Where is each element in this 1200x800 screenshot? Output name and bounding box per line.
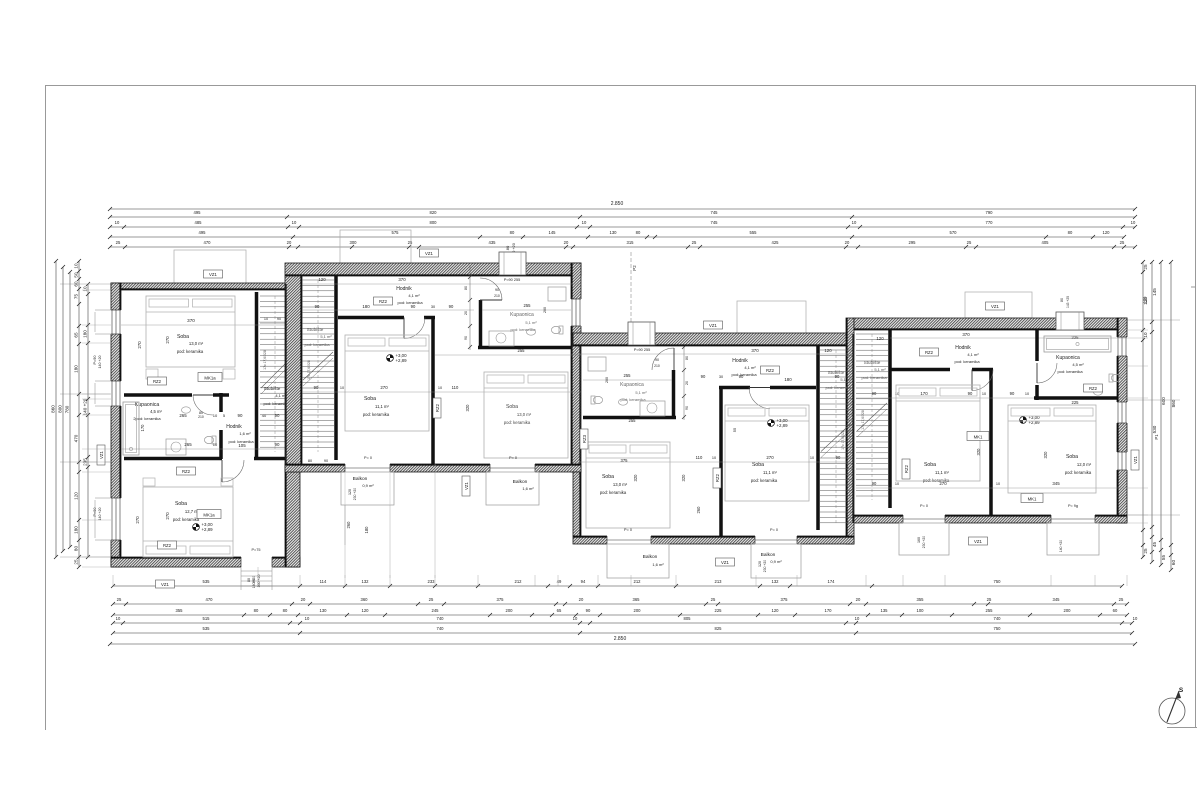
svg-text:90: 90 [872, 391, 877, 396]
label VZ1 building 4 roof [986, 302, 1005, 310]
label RZ2 rotated building 3 [713, 468, 721, 488]
building 4 right wall [1117, 318, 1127, 523]
svg-text:120: 120 [1143, 296, 1148, 304]
svg-text:114: 114 [320, 579, 327, 584]
building 3 Kupaonica walls [672, 370, 676, 419]
building 1 bottom wall entrance gap [241, 557, 272, 568]
bed building 1 Soba 12.7 [143, 487, 233, 557]
svg-text:60: 60 [1171, 560, 1176, 566]
building 2 Kupaonica walls [479, 300, 483, 349]
label MK1 building 4 b [1021, 494, 1043, 503]
svg-text:90: 90 [685, 406, 689, 410]
svg-text:pod: keramika: pod: keramika [1057, 369, 1083, 374]
building 3 hodnik door arc [749, 388, 770, 409]
svg-text:212: 212 [515, 579, 523, 584]
building 3 Soba 11.1 top wall [719, 386, 750, 390]
svg-text:Kupaonica: Kupaonica [510, 312, 534, 318]
building 3 balcony door left gap [607, 536, 651, 546]
svg-text:Kupaonica: Kupaonica [135, 402, 160, 408]
svg-text:P= 0: P= 0 [624, 528, 632, 532]
svg-text:Kupaonica: Kupaonica [1056, 355, 1080, 361]
building 2 right wall window [571, 299, 582, 326]
svg-text:RZ2: RZ2 [904, 464, 909, 473]
svg-text:120: 120 [348, 489, 352, 495]
svg-text:Soba: Soba [602, 474, 614, 480]
svg-text:10: 10 [116, 616, 121, 621]
bed building 4 soba 11.1 [896, 385, 980, 481]
building 3 stairs [820, 349, 852, 351]
top dimension chain row 25/470/20/300/25/435/20/315/25/425/20/295/25/405/25 [110, 246, 1135, 248]
svg-text:+2,89: +2,89 [776, 423, 788, 428]
svg-text:270: 270 [766, 455, 774, 460]
top dimension chain total 2.850 [110, 208, 1135, 210]
svg-text:740: 740 [994, 616, 1002, 621]
svg-text:143 +20: 143 +20 [1066, 296, 1070, 308]
svg-text:90: 90 [275, 413, 280, 418]
svg-text:132: 132 [772, 579, 780, 584]
svg-text:10: 10 [582, 220, 587, 225]
svg-text:VZ1: VZ1 [464, 481, 469, 489]
svg-text:120: 120 [758, 561, 762, 567]
wc building 4 [1109, 374, 1121, 382]
svg-text:60: 60 [74, 281, 79, 287]
svg-text:10: 10 [438, 386, 442, 390]
svg-text:25: 25 [1143, 264, 1148, 270]
svg-text:375: 375 [621, 458, 629, 463]
left dimension chain 800 [62, 267, 64, 551]
svg-text:10: 10 [895, 482, 899, 486]
svg-text:Balkon: Balkon [761, 552, 776, 558]
svg-text:55: 55 [732, 427, 737, 432]
building 4 stairs [856, 333, 888, 335]
svg-text:10: 10 [852, 220, 857, 225]
building 4 right wall window lower [1117, 452, 1128, 470]
svg-text:Soba: Soba [506, 404, 518, 410]
left dimension chain 860 total [55, 261, 57, 557]
building 2 left party wall [285, 276, 302, 472]
label VZ1 bottom building 1 [156, 580, 175, 588]
building 3 top wall [573, 333, 854, 346]
svg-text:VZ1: VZ1 [709, 323, 717, 328]
svg-text:P= 0: P= 0 [770, 528, 778, 532]
svg-text:50: 50 [74, 272, 79, 278]
svg-text:210: 210 [494, 294, 500, 298]
svg-text:320: 320 [976, 448, 981, 456]
building 4 Soba 11.1 right wall [989, 368, 993, 515]
label VZ1 building 2 roof [420, 249, 439, 257]
building 1 hodnik to soba door arc [222, 460, 244, 482]
building 4 balcony door left gap [903, 515, 945, 525]
building 2 right party wall lower [571, 334, 581, 472]
svg-text:233: 233 [428, 579, 436, 584]
washing machine building 2 [489, 331, 514, 346]
svg-text:pod: keramika: pod: keramika [177, 349, 204, 354]
svg-text:200: 200 [605, 377, 609, 383]
svg-text:370: 370 [187, 318, 195, 323]
svg-text:255: 255 [624, 373, 632, 378]
svg-text:10: 10 [1143, 332, 1148, 338]
svg-text:140 +20: 140 +20 [1059, 540, 1063, 552]
svg-text:1,6 m²: 1,6 m² [522, 486, 534, 491]
svg-text:25: 25 [1120, 240, 1125, 245]
svg-text:20: 20 [564, 240, 569, 245]
svg-text:65: 65 [74, 332, 79, 338]
svg-text:pod: keramika: pod: keramika [1065, 470, 1092, 475]
left dimension chain segments [78, 261, 80, 567]
svg-text:105: 105 [238, 443, 246, 448]
building 1 interior wall Kupaonica bottom [124, 457, 222, 461]
svg-text:375: 375 [781, 597, 789, 602]
svg-text:5,1 m²: 5,1 m² [525, 320, 537, 325]
building 3 kupaonica dims [583, 379, 672, 381]
svg-text:90: 90 [655, 358, 659, 362]
svg-text:pod: keramika: pod: keramika [954, 359, 980, 364]
svg-text:20: 20 [845, 240, 850, 245]
svg-text:750: 750 [994, 579, 1002, 584]
svg-text:80: 80 [464, 286, 468, 290]
svg-text:90: 90 [835, 374, 840, 379]
bottom dimension total 2.850 [110, 643, 1135, 645]
svg-text:RZ2: RZ2 [1089, 386, 1098, 391]
top dimension chain row 495/820/745/790 [110, 216, 1135, 218]
svg-text:170: 170 [920, 391, 928, 396]
svg-text:VZ1: VZ1 [99, 450, 104, 458]
svg-text:80: 80 [254, 608, 259, 613]
svg-text:270: 270 [137, 341, 142, 349]
svg-text:470: 470 [74, 434, 79, 442]
label VZ1 building 4 bottom [969, 537, 988, 545]
sink building 1 [182, 407, 191, 413]
svg-text:10: 10 [1133, 616, 1138, 621]
bathtub building 4 [1044, 336, 1111, 352]
svg-text:P= 0: P= 0 [920, 504, 928, 508]
svg-text:S: S [1179, 687, 1184, 694]
building 2 kupaonica door arc [480, 278, 502, 300]
svg-text:800: 800 [430, 220, 438, 225]
svg-text:515: 515 [203, 616, 211, 621]
sink building 4 [1094, 389, 1103, 395]
svg-text:860: 860 [1171, 399, 1176, 407]
building 3 balcony door right gap [755, 536, 797, 546]
svg-text:P1: P1 [1154, 434, 1159, 440]
svg-text:20: 20 [301, 597, 306, 602]
svg-text:90: 90 [238, 413, 243, 418]
svg-text:RZ2: RZ2 [435, 403, 440, 412]
svg-text:90: 90 [314, 385, 319, 390]
roof outline above building 4 [965, 292, 1032, 318]
svg-text:90: 90 [872, 481, 877, 486]
svg-text:10: 10 [1131, 220, 1136, 225]
svg-text:VZ1: VZ1 [209, 272, 217, 277]
svg-text:60: 60 [1113, 608, 1118, 613]
svg-text:11,1 m²: 11,1 m² [375, 404, 389, 409]
page border frame [45, 85, 1196, 87]
svg-text:45: 45 [1152, 542, 1157, 548]
bed building 2 soba13 [484, 372, 568, 458]
svg-text:90: 90 [586, 608, 591, 613]
svg-text:120: 120 [318, 277, 326, 282]
wc building 2 [551, 326, 563, 334]
svg-text:770: 770 [986, 220, 994, 225]
svg-text:65: 65 [557, 608, 562, 613]
svg-text:90: 90 [739, 374, 744, 379]
building 3 bottom wall [573, 536, 854, 544]
svg-text:90: 90 [701, 374, 706, 379]
svg-text:25: 25 [711, 597, 716, 602]
svg-text:200: 200 [634, 608, 642, 613]
bottom dimension chain row 535/740/825/750 [113, 632, 1132, 634]
wc building 1 [204, 436, 216, 444]
svg-text:90: 90 [836, 455, 841, 460]
svg-text:Soba: Soba [1066, 454, 1078, 460]
svg-text:5,1 m²: 5,1 m² [320, 334, 332, 339]
svg-text:11,1 m²: 11,1 m² [935, 470, 949, 475]
svg-text:120: 120 [362, 608, 370, 613]
svg-text:180: 180 [362, 304, 370, 309]
svg-text:600: 600 [1161, 397, 1166, 405]
svg-text:10: 10 [83, 286, 88, 292]
svg-text:90: 90 [411, 304, 416, 309]
svg-text:320: 320 [465, 404, 470, 412]
svg-text:470: 470 [204, 240, 212, 245]
svg-text:575: 575 [392, 230, 400, 235]
svg-text:Hodnik: Hodnik [396, 286, 412, 292]
svg-text:485: 485 [195, 220, 203, 225]
building 3 left wall lower [573, 472, 581, 536]
svg-text:80: 80 [247, 578, 251, 582]
north symbol [1159, 698, 1185, 724]
svg-text:25: 25 [429, 597, 434, 602]
svg-text:805: 805 [684, 616, 692, 621]
svg-text:130: 130 [320, 608, 328, 613]
svg-text:80: 80 [283, 608, 288, 613]
svg-text:295: 295 [909, 240, 917, 245]
svg-text:Hodnik: Hodnik [955, 345, 971, 351]
svg-text:270: 270 [939, 481, 947, 486]
svg-text:Balkon: Balkon [513, 479, 528, 485]
svg-text:270: 270 [380, 385, 388, 390]
svg-text:1,6 m²: 1,6 m² [652, 562, 664, 567]
svg-text:Stubište: Stubište [307, 327, 324, 332]
svg-text:Kupaonica: Kupaonica [620, 382, 644, 388]
svg-text:370: 370 [398, 277, 406, 282]
svg-text:25: 25 [692, 240, 697, 245]
svg-text:10: 10 [855, 616, 860, 621]
svg-text:20: 20 [579, 597, 584, 602]
building 2 top wall [285, 263, 581, 276]
svg-text:RZ3: RZ3 [582, 434, 587, 443]
svg-text:Soba: Soba [177, 334, 189, 340]
svg-text:30: 30 [431, 305, 435, 309]
svg-text:530: 530 [1152, 425, 1157, 433]
bed building 1 Soba 13.0 [146, 296, 235, 367]
svg-text:pod: keramika: pod: keramika [751, 478, 778, 483]
building 3 balcony right [751, 544, 801, 578]
roof outline above building 3 [737, 301, 806, 334]
svg-text:17x 17,60/28: 17x 17,60/28 [263, 350, 267, 370]
svg-text:100: 100 [917, 608, 925, 613]
building 4 Soba 11.1 top wall [890, 368, 950, 372]
svg-text:5,1 m²: 5,1 m² [840, 377, 852, 382]
svg-text:P2: P2 [632, 265, 637, 271]
svg-text:P=75: P=75 [252, 548, 261, 552]
label RZ2 building 4 kupaonica [1084, 384, 1103, 392]
right dimension chain 530/590/600/860 [1151, 262, 1153, 562]
svg-text:5,1 m²: 5,1 m² [635, 390, 647, 395]
svg-text:200: 200 [1064, 608, 1072, 613]
svg-text:740: 740 [437, 616, 445, 621]
svg-text:MK1a: MK1a [204, 376, 216, 381]
label VZ1 right edge rotated [1131, 450, 1139, 470]
svg-text:180: 180 [364, 526, 369, 534]
svg-text:320: 320 [633, 474, 638, 482]
sink building 3 [619, 399, 628, 405]
svg-text:Stubište: Stubište [864, 360, 881, 365]
svg-text:1,6 m²: 1,6 m² [239, 431, 251, 436]
svg-text:10: 10 [213, 413, 218, 418]
building 4 kupaonica door arc [1037, 363, 1057, 383]
washing machine building 1 [166, 439, 186, 455]
svg-text:RZ2: RZ2 [182, 469, 191, 474]
building 4 bottom wall [854, 515, 1127, 523]
bottom dimension chain row 355/80/80/130/120/245/200/65/90/200/225/120/170/135/100/255/200/60 [113, 614, 1127, 616]
svg-text:pod: keramika: pod: keramika [504, 420, 531, 425]
svg-text:320: 320 [1043, 451, 1048, 459]
building 2 balcony left [341, 472, 394, 505]
building 1 interior wall between Soba and Kupaonica [124, 393, 192, 397]
svg-text:110: 110 [696, 455, 703, 460]
top dimension chain row 495/575/80/145/130/80/555/570/80/120 [110, 236, 1124, 238]
building 4 chimney box [1056, 312, 1084, 330]
svg-text:pod: keramika: pod: keramika [304, 342, 330, 347]
building 4 balcony door right gap [1051, 515, 1095, 525]
bed building 3 soba13 [586, 442, 670, 528]
svg-text:0,9 m²: 0,9 m² [362, 483, 374, 488]
nightstands building 1 Soba 13 [146, 369, 158, 379]
svg-text:+2,89: +2,89 [395, 358, 407, 363]
svg-text:745: 745 [711, 220, 719, 225]
svg-text:10: 10 [115, 220, 120, 225]
building 2 Soba 11.1 right wall [431, 316, 435, 464]
svg-text:255: 255 [629, 418, 637, 423]
building 2 balcony door right gap [490, 464, 535, 474]
svg-text:110: 110 [452, 385, 459, 390]
svg-text:170: 170 [825, 608, 833, 613]
building 2 balcony door left gap [345, 464, 390, 474]
label RZ2 building 1 lower [158, 541, 177, 549]
shower building 3 [588, 357, 606, 371]
building 4 balcony right [1047, 523, 1099, 555]
svg-text:213: 213 [715, 579, 723, 584]
building 2 interior dim column x470 [469, 265, 471, 350]
svg-text:11,1 m²: 11,1 m² [763, 470, 777, 475]
building 2 Soba 11.1 top wall [338, 316, 404, 320]
svg-text:pod: keramika: pod: keramika [173, 517, 200, 522]
label RZ2 below kupaonica building 1 [177, 467, 196, 475]
svg-text:800: 800 [58, 405, 63, 413]
svg-text:P=90: P=90 [93, 356, 97, 365]
svg-text:25: 25 [987, 597, 992, 602]
svg-text:425: 425 [772, 240, 780, 245]
svg-text:25: 25 [1143, 548, 1148, 554]
svg-text:MK1: MK1 [974, 435, 983, 440]
svg-text:570: 570 [950, 230, 958, 235]
svg-text:90: 90 [1010, 391, 1015, 396]
svg-text:135: 135 [881, 608, 889, 613]
svg-text:230 +20: 230 +20 [922, 536, 926, 548]
svg-text:255: 255 [518, 348, 526, 353]
svg-text:pod: keramika: pod: keramika [363, 412, 390, 417]
right dimension chain segments 25/120/10/135/145 [1142, 262, 1144, 557]
bottom dimension chain row 535/114/132/233/212/49/94/212/213/132/174/750 [113, 585, 1122, 587]
svg-text:80: 80 [308, 459, 312, 463]
svg-text:RZ2: RZ2 [379, 299, 388, 304]
label RZ2 rotated building 4 [902, 459, 910, 479]
svg-text:P= 0: P= 0 [509, 456, 517, 460]
svg-text:270: 270 [165, 512, 170, 520]
svg-text:80: 80 [505, 245, 510, 250]
building 1 left wall [111, 283, 121, 567]
building 1 top wall [111, 283, 291, 290]
building 4 hodnik door arc [972, 370, 993, 391]
svg-text:25: 25 [117, 597, 122, 602]
svg-text:10: 10 [1025, 392, 1029, 396]
svg-text:20: 20 [287, 240, 292, 245]
svg-text:pod: keramika: pod: keramika [861, 375, 887, 380]
building 3 kupaonica door arc [652, 348, 674, 370]
construction horizontal lines to right dims [1127, 329, 1148, 331]
P2 dashed axis line [630, 252, 632, 334]
svg-text:10: 10 [712, 456, 716, 460]
svg-text:820: 820 [430, 210, 438, 215]
svg-text:MK1: MK1 [1028, 497, 1037, 502]
svg-text:VZ1: VZ1 [991, 304, 999, 309]
svg-text:Soba: Soba [364, 396, 376, 402]
svg-text:P= 9g: P= 9g [1068, 504, 1078, 508]
building 1 interior wall Soba 12.7 top right [254, 457, 300, 461]
svg-text:4,1 m²: 4,1 m² [967, 352, 979, 357]
svg-text:270: 270 [135, 516, 140, 524]
building 4 balcony left [899, 523, 949, 555]
construction vertical dashed building axes [344, 505, 346, 578]
svg-text:435: 435 [489, 240, 497, 245]
svg-text:80: 80 [685, 356, 689, 360]
svg-text:535: 535 [203, 579, 211, 584]
svg-text:4,5 m²: 4,5 m² [150, 409, 162, 414]
top dimension chain row 10/485/10/800/10/745/10/770/10 [110, 226, 1135, 228]
svg-text:360: 360 [361, 597, 369, 602]
building 1 kupaonica door arc [193, 395, 213, 415]
level marker building 2 [387, 355, 394, 362]
svg-text:13,0 m²: 13,0 m² [189, 341, 204, 346]
construction line right extension [1127, 319, 1180, 321]
svg-text:20: 20 [685, 381, 689, 385]
building 1 entrance steps [241, 570, 272, 572]
svg-text:10: 10 [340, 386, 344, 390]
svg-text:17x 17,60/28: 17x 17,60/28 [861, 410, 865, 430]
left dimension chain 780 [69, 272, 71, 547]
svg-text:10: 10 [573, 616, 578, 621]
svg-text:40: 40 [262, 413, 267, 418]
svg-text:535: 535 [203, 626, 211, 631]
label RZ2 building 1 [148, 377, 167, 385]
bed building 4 soba12 [1008, 405, 1096, 493]
svg-text:320: 320 [681, 474, 686, 482]
building 1 left window sills [95, 309, 111, 311]
label VZ1 left edge rotated [97, 445, 105, 465]
svg-text:495: 495 [194, 210, 202, 215]
svg-text:4,1 m²: 4,1 m² [744, 365, 756, 370]
